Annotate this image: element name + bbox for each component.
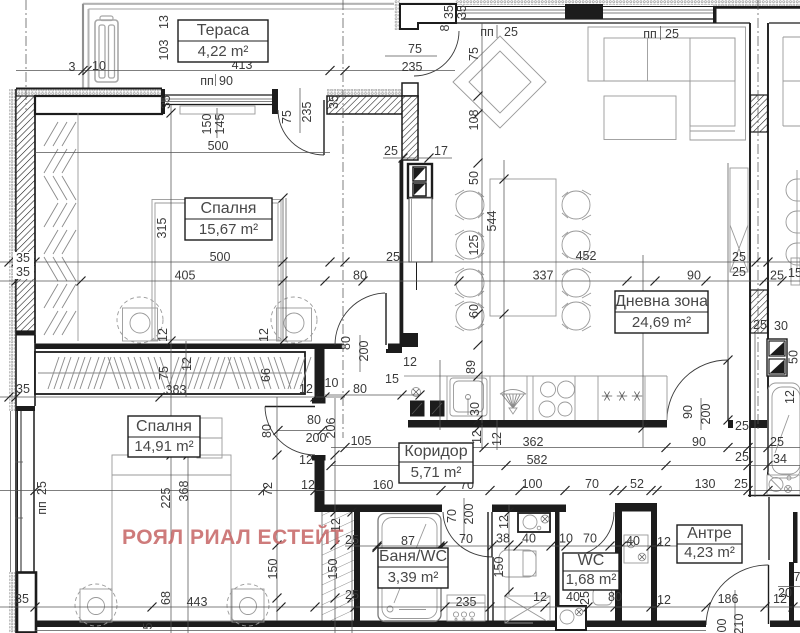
svg-text:38: 38 bbox=[496, 532, 510, 546]
svg-text:35: 35 bbox=[16, 382, 30, 396]
svg-text:3,39 m²: 3,39 m² bbox=[388, 569, 439, 586]
svg-text:25: 25 bbox=[345, 588, 359, 602]
svg-text:12: 12 bbox=[657, 535, 671, 549]
svg-text:80: 80 bbox=[260, 424, 274, 438]
svg-text:35: 35 bbox=[455, 5, 469, 19]
svg-text:25: 25 bbox=[770, 435, 784, 449]
svg-text:452: 452 bbox=[576, 249, 597, 263]
svg-text:1,68 m²: 1,68 m² bbox=[566, 571, 617, 588]
svg-text:75: 75 bbox=[467, 47, 481, 61]
svg-text:14,91 m²: 14,91 m² bbox=[134, 438, 193, 455]
svg-text:40: 40 bbox=[626, 534, 640, 548]
svg-text:60: 60 bbox=[467, 304, 481, 318]
svg-text:50: 50 bbox=[787, 350, 800, 364]
svg-text:Дневна зона: Дневна зона bbox=[615, 293, 708, 310]
svg-text:72: 72 bbox=[261, 482, 275, 496]
svg-text:75: 75 bbox=[280, 110, 294, 124]
svg-text:15: 15 bbox=[788, 266, 800, 280]
svg-text:25: 25 bbox=[504, 25, 518, 39]
svg-text:Коридор: Коридор bbox=[404, 443, 467, 460]
svg-text:12: 12 bbox=[403, 355, 417, 369]
svg-text:383: 383 bbox=[166, 383, 187, 397]
svg-text:75: 75 bbox=[408, 42, 422, 56]
svg-text:52: 52 bbox=[630, 477, 644, 491]
svg-text:70: 70 bbox=[459, 532, 473, 546]
svg-text:35: 35 bbox=[327, 95, 341, 109]
svg-text:582: 582 bbox=[527, 453, 548, 467]
svg-text:РОЯЛ РИАЛ ЕСТЕЙТ: РОЯЛ РИАЛ ЕСТЕЙТ bbox=[122, 525, 344, 549]
svg-text:25: 25 bbox=[345, 533, 359, 547]
svg-text:150: 150 bbox=[492, 557, 506, 578]
svg-text:12: 12 bbox=[533, 590, 547, 604]
svg-text:105: 105 bbox=[351, 434, 372, 448]
svg-text:10: 10 bbox=[325, 376, 339, 390]
svg-text:544: 544 bbox=[485, 211, 499, 232]
svg-text:80: 80 bbox=[307, 413, 321, 427]
svg-text:150: 150 bbox=[200, 114, 214, 135]
svg-text:20: 20 bbox=[778, 586, 792, 600]
svg-text:25: 25 bbox=[384, 144, 398, 158]
svg-text:25: 25 bbox=[732, 250, 746, 264]
svg-text:200: 200 bbox=[357, 341, 371, 362]
svg-text:90: 90 bbox=[687, 269, 701, 283]
svg-text:150: 150 bbox=[326, 559, 340, 580]
svg-text:12: 12 bbox=[257, 328, 271, 342]
svg-text:пп: пп bbox=[35, 501, 49, 515]
svg-text:12: 12 bbox=[299, 453, 313, 467]
svg-text:70: 70 bbox=[583, 532, 597, 546]
svg-text:80: 80 bbox=[353, 382, 367, 396]
svg-text:25: 25 bbox=[735, 450, 749, 464]
svg-text:368: 368 bbox=[177, 481, 191, 502]
svg-text:225: 225 bbox=[159, 488, 173, 509]
svg-text:15,67 m²: 15,67 m² bbox=[199, 221, 258, 238]
svg-text:25: 25 bbox=[386, 250, 400, 264]
svg-text:80: 80 bbox=[608, 590, 622, 604]
svg-text:315: 315 bbox=[155, 218, 169, 239]
svg-text:500: 500 bbox=[208, 139, 229, 153]
svg-text:80: 80 bbox=[353, 269, 367, 283]
svg-text:443: 443 bbox=[187, 595, 208, 609]
svg-text:25: 25 bbox=[734, 477, 748, 491]
svg-text:13: 13 bbox=[157, 15, 171, 29]
svg-text:7: 7 bbox=[794, 570, 800, 584]
svg-text:200: 200 bbox=[699, 404, 713, 425]
svg-text:4,23 m²: 4,23 m² bbox=[684, 544, 735, 561]
svg-text:25: 25 bbox=[735, 419, 749, 433]
svg-text:500: 500 bbox=[210, 250, 231, 264]
svg-text:100: 100 bbox=[715, 619, 729, 633]
svg-text:5: 5 bbox=[141, 622, 155, 629]
svg-text:200: 200 bbox=[462, 504, 476, 525]
svg-text:405: 405 bbox=[175, 269, 196, 283]
svg-text:145: 145 bbox=[213, 114, 227, 135]
svg-text:35: 35 bbox=[442, 5, 456, 19]
svg-text:210: 210 bbox=[732, 614, 746, 633]
svg-text:Тераса: Тераса bbox=[197, 22, 250, 39]
svg-text:70: 70 bbox=[445, 509, 459, 523]
svg-text:Антре: Антре bbox=[687, 525, 732, 542]
svg-text:Спалня: Спалня bbox=[136, 418, 192, 435]
svg-text:30: 30 bbox=[468, 402, 482, 416]
svg-text:Баня/WC: Баня/WC bbox=[379, 548, 447, 565]
svg-text:90: 90 bbox=[681, 405, 695, 419]
svg-text:70: 70 bbox=[585, 477, 599, 491]
svg-text:10: 10 bbox=[559, 532, 573, 546]
svg-text:40: 40 bbox=[522, 532, 536, 546]
svg-text:130: 130 bbox=[695, 477, 716, 491]
svg-text:пп: пп bbox=[480, 25, 494, 39]
svg-text:103: 103 bbox=[157, 40, 171, 61]
svg-text:25: 25 bbox=[732, 265, 746, 279]
svg-text:160: 160 bbox=[373, 478, 394, 492]
svg-text:пп: пп bbox=[643, 27, 657, 41]
svg-text:12: 12 bbox=[470, 430, 484, 444]
svg-text:25: 25 bbox=[35, 481, 49, 495]
svg-text:30: 30 bbox=[774, 319, 788, 333]
svg-text:35: 35 bbox=[16, 265, 30, 279]
svg-text:8: 8 bbox=[438, 24, 452, 31]
svg-text:34: 34 bbox=[773, 452, 787, 466]
svg-text:24,69 m²: 24,69 m² bbox=[632, 314, 691, 331]
svg-text:206: 206 bbox=[324, 418, 338, 439]
svg-text:186: 186 bbox=[718, 592, 739, 606]
svg-text:5,71 m²: 5,71 m² bbox=[411, 464, 462, 481]
svg-text:Спалня: Спалня bbox=[201, 200, 257, 217]
svg-text:235: 235 bbox=[300, 102, 314, 123]
svg-text:WC: WC bbox=[578, 552, 605, 569]
svg-text:362: 362 bbox=[523, 435, 544, 449]
svg-text:80: 80 bbox=[339, 336, 353, 350]
svg-text:25: 25 bbox=[753, 318, 767, 332]
svg-text:337: 337 bbox=[533, 269, 554, 283]
svg-text:12: 12 bbox=[490, 432, 504, 446]
svg-text:25: 25 bbox=[770, 269, 784, 283]
svg-text:12: 12 bbox=[497, 515, 511, 529]
svg-text:пп: пп bbox=[200, 74, 214, 88]
svg-text:4,22 m²: 4,22 m² bbox=[198, 43, 249, 60]
svg-text:100: 100 bbox=[522, 477, 543, 491]
svg-text:108: 108 bbox=[467, 110, 481, 131]
svg-text:68: 68 bbox=[159, 591, 173, 605]
svg-text:89: 89 bbox=[464, 360, 478, 374]
svg-text:35: 35 bbox=[159, 95, 173, 109]
svg-text:235: 235 bbox=[402, 60, 423, 74]
svg-text:12: 12 bbox=[180, 357, 194, 371]
svg-text:12: 12 bbox=[299, 382, 313, 396]
svg-text:50: 50 bbox=[467, 171, 481, 185]
svg-text:75: 75 bbox=[157, 366, 171, 380]
svg-text:90: 90 bbox=[219, 74, 233, 88]
svg-text:12: 12 bbox=[657, 593, 671, 607]
svg-text:10: 10 bbox=[92, 59, 106, 73]
svg-text:3: 3 bbox=[69, 60, 76, 74]
svg-text:25: 25 bbox=[665, 27, 679, 41]
svg-text:125: 125 bbox=[467, 235, 481, 256]
svg-text:15: 15 bbox=[385, 372, 399, 386]
svg-text:90: 90 bbox=[692, 435, 706, 449]
svg-text:17: 17 bbox=[434, 144, 448, 158]
svg-text:12: 12 bbox=[301, 478, 315, 492]
svg-text:25: 25 bbox=[578, 591, 592, 605]
svg-text:235: 235 bbox=[456, 595, 477, 609]
svg-text:150: 150 bbox=[266, 559, 280, 580]
svg-text:35: 35 bbox=[15, 592, 29, 606]
svg-text:66: 66 bbox=[259, 368, 273, 382]
svg-text:12: 12 bbox=[783, 390, 797, 404]
svg-text:12: 12 bbox=[156, 328, 170, 342]
svg-text:35: 35 bbox=[16, 251, 30, 265]
svg-text:87: 87 bbox=[401, 534, 415, 548]
